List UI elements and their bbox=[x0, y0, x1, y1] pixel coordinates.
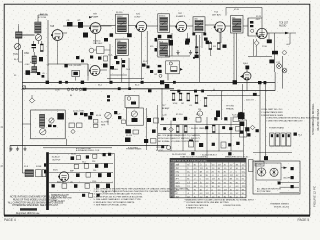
capacitor C21 bbox=[224, 117, 238, 122]
resistor R30 bbox=[104, 56, 108, 61]
oscillator coil L3 bbox=[32, 52, 37, 67]
capacitor C17 bbox=[48, 125, 56, 128]
svg-text:FUSE: FUSE bbox=[36, 166, 42, 168]
svg-text:H HEATER VOLTS: H HEATER VOLTS bbox=[186, 206, 204, 209]
svg-text:OSC SEC: OSC SEC bbox=[93, 43, 103, 45]
label bbox=[24, 166, 42, 168]
wire bbox=[221, 32, 234, 82]
value label bbox=[135, 85, 140, 87]
svg-text:22-114 SW: 22-114 SW bbox=[73, 111, 85, 113]
svg-text:.15: .15 bbox=[230, 193, 233, 195]
legend right bbox=[261, 108, 319, 122]
svg-text:85: 85 bbox=[218, 186, 220, 188]
junction bbox=[222, 126, 225, 129]
grid circle bbox=[197, 111, 202, 116]
wire bbox=[280, 182, 300, 184]
wire bbox=[66, 139, 68, 146]
junction bbox=[212, 143, 215, 146]
part bbox=[116, 61, 125, 67]
capacitor C23 bbox=[199, 143, 203, 147]
svg-text:88: 88 bbox=[212, 182, 214, 184]
wire bbox=[48, 63, 88, 65]
capacitor C35 bbox=[74, 184, 77, 188]
B+ bus wire bbox=[22, 82, 275, 84]
resistor R28 bbox=[62, 184, 67, 188]
svg-text:35Z5: 35Z5 bbox=[53, 170, 59, 172]
wire bbox=[19, 42, 23, 62]
svg-text:2ND: 2ND bbox=[117, 41, 122, 43]
svg-text:117: 117 bbox=[206, 193, 209, 195]
part bbox=[82, 193, 100, 197]
resistor R21 bbox=[76, 156, 80, 160]
value label bbox=[154, 74, 157, 76]
value label bbox=[42, 73, 46, 75]
wire bbox=[220, 91, 222, 120]
ground bbox=[189, 50, 192, 54]
svg-text:AUDIO: AUDIO bbox=[279, 25, 286, 28]
svg-text:-3: -3 bbox=[187, 193, 189, 195]
capacitor C36 bbox=[96, 184, 99, 188]
svg-text:3: 3 bbox=[171, 172, 172, 174]
osc section box bbox=[97, 47, 105, 54]
IF amplifier tube V2 7B7 bbox=[89, 23, 101, 34]
label bbox=[51, 194, 72, 203]
socket circle bbox=[131, 111, 137, 122]
diamond node bbox=[254, 39, 259, 56]
svg-text:1M: 1M bbox=[181, 103, 184, 105]
svg-text:50L6 GT: 50L6 GT bbox=[246, 100, 255, 102]
svg-text:46-250 SCHEM: 46-250 SCHEM bbox=[316, 109, 320, 131]
notes list center bbox=[94, 187, 189, 206]
svg-text:6. REPLACE ONLY WITH RATED PA: 6. REPLACE ONLY WITH RATED PARTS. bbox=[94, 201, 136, 204]
value label bbox=[262, 46, 267, 48]
marks bbox=[107, 95, 110, 101]
svg-text:8: 8 bbox=[171, 189, 172, 191]
output tube V9 bbox=[240, 63, 251, 80]
socket view box bbox=[256, 163, 281, 180]
wire bbox=[49, 182, 113, 184]
svg-text:7B7: 7B7 bbox=[176, 189, 179, 191]
svg-text:50L6: 50L6 bbox=[243, 63, 249, 65]
svg-text:220: 220 bbox=[198, 109, 201, 111]
oscillator coil L4 bbox=[40, 114, 45, 127]
value label bbox=[102, 192, 107, 194]
svg-text:POWER: POWER bbox=[256, 164, 264, 166]
2nd converter label bbox=[134, 14, 141, 19]
svg-text:42-16: 42-16 bbox=[96, 115, 102, 117]
svg-text:88: 88 bbox=[230, 179, 232, 181]
svg-text:92: 92 bbox=[242, 179, 244, 181]
filter can 3 bbox=[281, 133, 285, 146]
svg-text:0: 0 bbox=[187, 168, 188, 170]
resistor R14 bbox=[93, 120, 98, 128]
part left of bar bbox=[44, 163, 46, 173]
part bbox=[294, 133, 303, 137]
svg-text:MODEL 46-250: MODEL 46-250 bbox=[274, 206, 290, 208]
svg-text:6.3: 6.3 bbox=[242, 172, 245, 174]
wire bbox=[87, 64, 89, 81]
value label bbox=[30, 62, 36, 64]
svg-text:117: 117 bbox=[230, 175, 233, 177]
svg-text:88: 88 bbox=[236, 165, 238, 167]
value label bbox=[144, 65, 149, 67]
junction bbox=[88, 116, 92, 120]
junction bbox=[59, 81, 62, 84]
svg-text:2.2: 2.2 bbox=[187, 186, 190, 188]
fuse box bbox=[36, 170, 46, 177]
junction bbox=[205, 126, 208, 129]
wire bbox=[165, 33, 190, 56]
padder trimmer C16 bbox=[40, 129, 46, 135]
svg-text:85: 85 bbox=[187, 179, 189, 181]
svg-text:.15: .15 bbox=[200, 186, 203, 188]
svg-text:88: 88 bbox=[206, 196, 208, 198]
speaker field label bbox=[76, 149, 100, 152]
svg-text:45: 45 bbox=[212, 193, 214, 195]
capacitor C5 bbox=[83, 33, 88, 38]
svg-text:-3: -3 bbox=[206, 189, 208, 191]
junction bbox=[110, 33, 114, 37]
svg-text:IF AMP 2: IF AMP 2 bbox=[176, 15, 186, 18]
junction bbox=[214, 117, 217, 120]
svg-text:7C6 1ST: 7C6 1ST bbox=[279, 23, 289, 25]
tube V5 detector bbox=[214, 22, 225, 32]
figure caption right margin bbox=[311, 103, 320, 135]
legend text bbox=[158, 134, 200, 143]
svg-text:32-8122: 32-8122 bbox=[52, 157, 60, 159]
value label bbox=[92, 161, 96, 163]
small circle bbox=[167, 146, 171, 150]
svg-text:7C6: 7C6 bbox=[176, 175, 179, 177]
tuning capacitor C2 bbox=[13, 44, 21, 57]
wire bbox=[9, 146, 11, 153]
svg-text:85: 85 bbox=[230, 196, 232, 198]
svg-text:6.3: 6.3 bbox=[218, 189, 221, 191]
part bbox=[118, 116, 126, 123]
svg-text:2.2: 2.2 bbox=[212, 168, 215, 170]
svg-text:FIGURE 12 PC: FIGURE 12 PC bbox=[313, 185, 317, 207]
junction bbox=[161, 118, 164, 121]
svg-text:.15: .15 bbox=[212, 196, 215, 198]
vertical wire bbox=[182, 125, 184, 152]
AC line wire bbox=[10, 145, 168, 147]
wire bbox=[49, 192, 90, 194]
svg-text:85: 85 bbox=[242, 168, 244, 170]
resistor R7 bbox=[158, 70, 162, 73]
label bbox=[257, 188, 281, 193]
socket sub-box bbox=[126, 108, 143, 125]
svg-text:ANT 76: ANT 76 bbox=[40, 13, 48, 16]
svg-text:TUBE PUR SC PL K G H SC: TUBE PUR SC PL K G H SC2 PL2 OSC bbox=[171, 161, 207, 163]
figure caption right margin lower bbox=[313, 185, 317, 207]
resistor R10 bbox=[187, 93, 190, 101]
svg-text:33-0: 33-0 bbox=[82, 162, 86, 164]
tube socket bottom view 2 bbox=[270, 168, 278, 176]
svg-text:2.2: 2.2 bbox=[224, 179, 227, 181]
svg-text:85: 85 bbox=[194, 165, 196, 167]
svg-text:6.3: 6.3 bbox=[194, 168, 197, 170]
svg-text:5. DIAL LAMP: MAZDA NO. 47 BA: 5. DIAL LAMP: MAZDA NO. 47 BAYONET TYPE. bbox=[94, 198, 142, 201]
label bbox=[206, 41, 211, 45]
svg-text:CODE: PART NO. 76-1: CODE: PART NO. 76-1 bbox=[261, 108, 283, 111]
svg-text:2.2: 2.2 bbox=[194, 172, 197, 174]
ground bbox=[16, 147, 19, 151]
wire bbox=[47, 64, 49, 81]
junction bbox=[233, 80, 237, 84]
svg-text:45: 45 bbox=[194, 196, 196, 198]
svg-text:45: 45 bbox=[236, 175, 238, 177]
junction bbox=[167, 35, 172, 39]
svg-text:45: 45 bbox=[206, 168, 208, 170]
grid cap wire bbox=[48, 20, 52, 66]
label bbox=[269, 126, 285, 129]
resistor R20 bbox=[189, 140, 194, 148]
capacitor C33 bbox=[76, 173, 80, 177]
svg-text:47-1234: 47-1234 bbox=[38, 17, 47, 19]
svg-text:2.2: 2.2 bbox=[200, 196, 203, 198]
parts bbox=[191, 152, 231, 155]
phono jack box bbox=[125, 96, 139, 108]
capacitor C38 bbox=[42, 75, 45, 78]
svg-text:OTHERWISE SPECIFIED. SEE PARTS: OTHERWISE SPECIFIED. SEE PARTS LIST. bbox=[12, 204, 59, 207]
label bbox=[52, 157, 61, 162]
tube V4 IF amp bbox=[175, 21, 186, 31]
svg-text:45: 45 bbox=[187, 172, 189, 174]
tube socket voltage table bbox=[170, 158, 246, 198]
part bbox=[107, 173, 111, 177]
capacitor C39 bbox=[76, 56, 79, 59]
IF transformer T6 can bbox=[231, 16, 243, 34]
wire bbox=[197, 33, 203, 55]
wire bbox=[289, 33, 291, 44]
svg-text:DET AVC: DET AVC bbox=[212, 13, 222, 16]
svg-text:7F7: 7F7 bbox=[176, 179, 179, 181]
parts row bbox=[125, 129, 138, 137]
junction bbox=[192, 33, 206, 36]
svg-text:90: 90 bbox=[194, 189, 196, 191]
capacitor C24 bbox=[236, 142, 239, 145]
ground bbox=[23, 147, 26, 151]
svg-text:PHASE: PHASE bbox=[226, 107, 234, 110]
power supply sub-box bbox=[253, 161, 300, 194]
connector box bbox=[249, 160, 254, 172]
value label bbox=[57, 182, 65, 184]
resistor R13 bbox=[69, 123, 82, 128]
wire bbox=[22, 34, 35, 36]
svg-text:117: 117 bbox=[242, 186, 245, 188]
svg-text:455KC: 455KC bbox=[159, 16, 166, 18]
svg-text:7F7 INV: 7F7 INV bbox=[226, 106, 235, 108]
wire bbox=[205, 24, 215, 26]
IF transformer T4 can bbox=[158, 40, 170, 58]
wire bbox=[259, 84, 261, 161]
wire bbox=[264, 84, 266, 156]
left margin mark lower bbox=[0, 164, 3, 168]
junction bbox=[148, 89, 152, 92]
pilot lamp P1 bbox=[277, 64, 282, 69]
wire bbox=[128, 25, 136, 27]
heavy bus bar bbox=[46, 152, 49, 210]
page number left bbox=[4, 218, 16, 222]
label bbox=[283, 178, 294, 180]
junction bbox=[127, 33, 132, 37]
capacitor C6 bbox=[39, 57, 43, 61]
junction bbox=[195, 55, 199, 59]
capacitor C11 bbox=[267, 33, 272, 43]
svg-text:7B7: 7B7 bbox=[176, 168, 179, 170]
svg-text:30-20: 30-20 bbox=[71, 154, 76, 156]
capacitor C41 bbox=[90, 56, 93, 59]
capacitor C19 bbox=[173, 118, 176, 121]
on-off switch part bbox=[291, 167, 294, 170]
svg-text:88: 88 bbox=[200, 172, 202, 174]
wire bbox=[213, 89, 215, 91]
svg-text:45: 45 bbox=[200, 182, 202, 184]
vertical wire bbox=[218, 125, 220, 152]
resistor R2 bbox=[78, 20, 84, 28]
svg-text:90: 90 bbox=[212, 186, 214, 188]
wire bbox=[236, 33, 238, 80]
svg-text:117: 117 bbox=[187, 196, 190, 198]
svg-text:TUBE SOCKET VOLTAGES: TUBE SOCKET VOLTAGES bbox=[180, 155, 207, 158]
svg-text:4. ALIGN IF AT 455 KC PER SER: 4. ALIGN IF AT 455 KC PER SERVICE BULLET… bbox=[94, 195, 144, 198]
capacitor C4 bbox=[67, 20, 73, 27]
1st AF tube V7 bbox=[89, 66, 100, 76]
svg-text:2.2: 2.2 bbox=[236, 189, 239, 191]
value label bbox=[70, 181, 73, 183]
svg-text:1M: 1M bbox=[154, 74, 157, 76]
label box bbox=[255, 162, 264, 167]
svg-text:ALL CAPACITOR VALUES SHOWN IN: ALL CAPACITOR VALUES SHOWN IN MFD UNLESS bbox=[8, 201, 64, 204]
part bbox=[291, 176, 294, 179]
label bbox=[191, 127, 205, 130]
resistor R24 bbox=[195, 46, 198, 53]
wire bbox=[49, 154, 115, 193]
svg-text:35Z5: 35Z5 bbox=[176, 186, 180, 188]
junction bbox=[141, 81, 144, 84]
svg-text:-3: -3 bbox=[242, 182, 244, 184]
wire bbox=[207, 95, 260, 97]
svg-text:-3: -3 bbox=[194, 179, 196, 181]
vertical wire bbox=[194, 125, 196, 152]
AVC bus wire bbox=[23, 88, 174, 90]
wire bbox=[157, 105, 159, 150]
svg-text:47-99: 47-99 bbox=[234, 9, 239, 11]
1st IF amp label bbox=[89, 14, 99, 19]
oscillator padder cluster bbox=[25, 64, 37, 75]
wire bbox=[141, 40, 143, 80]
wire bbox=[88, 64, 107, 76]
diamond node bbox=[71, 129, 75, 133]
svg-text:-3: -3 bbox=[224, 186, 226, 188]
caption bbox=[270, 203, 290, 208]
label bbox=[128, 146, 165, 152]
junction bbox=[161, 145, 164, 148]
svg-text:.15: .15 bbox=[224, 168, 227, 170]
ground bbox=[176, 50, 179, 54]
svg-text:47-210: 47-210 bbox=[176, 114, 183, 116]
wire bbox=[253, 146, 292, 153]
wire bbox=[282, 56, 284, 89]
svg-text:32-7788: 32-7788 bbox=[101, 122, 109, 124]
value label bbox=[98, 85, 103, 87]
value label bbox=[112, 69, 119, 71]
svg-text:92: 92 bbox=[224, 182, 226, 184]
svg-text:85: 85 bbox=[224, 172, 226, 174]
wire bbox=[22, 123, 30, 125]
svg-text:85: 85 bbox=[200, 189, 202, 191]
wire bbox=[146, 31, 148, 64]
svg-text:85: 85 bbox=[206, 175, 208, 177]
capacitor C26 bbox=[86, 155, 89, 158]
rectifier tube V10 bbox=[53, 170, 69, 182]
capacitor C25 bbox=[256, 129, 259, 132]
label bbox=[101, 122, 109, 127]
svg-text:92: 92 bbox=[187, 189, 189, 191]
vertical wire bbox=[206, 117, 208, 158]
vertical wire bbox=[230, 117, 232, 151]
svg-text:6.3: 6.3 bbox=[206, 179, 209, 181]
capacitor C13 bbox=[103, 64, 114, 70]
wire bbox=[43, 147, 112, 149]
svg-text:WITH 1000 OHM/VOLT METER, LINE: WITH 1000 OHM/VOLT METER, LINE 117V bbox=[158, 138, 200, 140]
svg-text:-3: -3 bbox=[200, 165, 202, 167]
resistor R12 bbox=[204, 97, 207, 106]
arrow bbox=[281, 167, 287, 170]
svg-text:* DENOTES CHANGE FROM RUN 1 AN: * DENOTES CHANGE FROM RUN 1 AND RUN 2 PR… bbox=[266, 117, 319, 120]
svg-text:88: 88 bbox=[242, 189, 244, 191]
svg-text:.15: .15 bbox=[206, 172, 209, 174]
wire bbox=[38, 14, 48, 16]
tube V8 phase inverter bbox=[238, 112, 245, 119]
capacitor C37 bbox=[37, 72, 40, 75]
svg-text:6.3: 6.3 bbox=[212, 165, 215, 167]
loop label bbox=[234, 9, 239, 11]
svg-text:88: 88 bbox=[224, 193, 226, 195]
label row bbox=[162, 114, 237, 117]
junction bbox=[114, 111, 117, 114]
svg-text:0: 0 bbox=[200, 179, 201, 181]
tube V6 1st audio bbox=[256, 28, 267, 38]
wire bbox=[49, 172, 113, 174]
svg-text:0: 0 bbox=[230, 186, 231, 188]
wire bbox=[96, 26, 116, 45]
bandswitch box bbox=[31, 110, 66, 139]
bus wire bbox=[158, 133, 244, 135]
junction bbox=[65, 81, 68, 84]
converter tube V1 7A8 bbox=[50, 25, 63, 40]
svg-text:-3: -3 bbox=[212, 175, 214, 177]
page number right bbox=[298, 218, 310, 222]
svg-text:6.3: 6.3 bbox=[224, 175, 227, 177]
svg-text:117V AC: 117V AC bbox=[156, 146, 165, 149]
resistor R19 bbox=[212, 125, 215, 133]
capacitor C15 bbox=[216, 111, 220, 118]
resistor R25 bbox=[74, 164, 78, 168]
wire bbox=[219, 32, 221, 50]
junction bbox=[114, 56, 125, 63]
svg-text:10: 10 bbox=[171, 196, 173, 198]
parts row2 bbox=[125, 138, 156, 144]
value label bbox=[70, 95, 73, 97]
capacitor C20 bbox=[184, 117, 187, 120]
label bbox=[96, 114, 121, 118]
svg-text:TUN: TUN bbox=[13, 54, 18, 56]
value label bbox=[93, 170, 96, 172]
svg-text:3. SWITCH SHOWN IN BROADCAST: 3. SWITCH SHOWN IN BROADCAST POSITION. bbox=[94, 193, 143, 196]
detector inner element bbox=[171, 67, 177, 72]
ground bbox=[9, 147, 12, 151]
